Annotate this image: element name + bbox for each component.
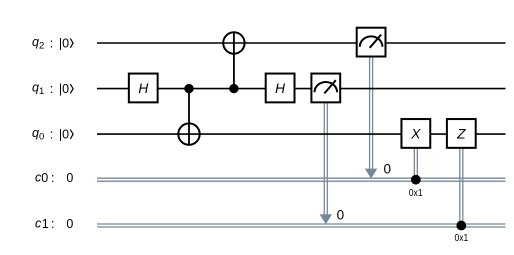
M2 classical double line to c0	[370, 57, 373, 170]
svg-text:|0: |0	[59, 128, 69, 142]
svg-text:Z: Z	[456, 127, 466, 142]
M1 arrow head	[320, 214, 332, 224]
svg-text:0: 0	[39, 132, 44, 143]
label q2	[32, 35, 73, 52]
gate X on q0	[401, 119, 430, 148]
svg-text:0x1: 0x1	[409, 188, 423, 199]
M2 arrow head	[365, 169, 377, 179]
svg-text:q: q	[32, 35, 39, 49]
wire q1	[97, 88, 506, 90]
svg-text:1: 1	[39, 86, 44, 97]
svg-text:0x1: 0x1	[454, 233, 468, 244]
measure M2 on q2	[357, 28, 386, 57]
svg-text:|0: |0	[59, 82, 69, 96]
svg-text:0: 0	[66, 217, 73, 231]
M1 classical double line to c1	[324, 103, 327, 216]
gate H2 on q1	[266, 74, 295, 103]
svg-text::: :	[50, 128, 53, 142]
svg-text::: :	[50, 36, 53, 50]
CNOT q1-q2 control dot	[229, 84, 238, 93]
svg-text:q: q	[32, 126, 39, 140]
X classical control double line to c0	[414, 148, 417, 179]
Z control dot on c1	[456, 221, 466, 231]
svg-text::: :	[51, 217, 54, 231]
label q1	[32, 80, 73, 97]
wire q0	[97, 133, 506, 135]
CNOT q1-q0 vertical wire	[188, 89, 190, 145]
svg-text:X: X	[410, 127, 421, 142]
svg-text:|0: |0	[59, 37, 69, 51]
svg-text:0: 0	[384, 162, 392, 177]
CNOT q1-q2 vertical wire	[233, 32, 235, 88]
Z classical control double line to c1	[460, 148, 463, 225]
svg-text:0: 0	[337, 208, 345, 223]
label c0	[35, 171, 73, 186]
X control dot on c0	[411, 175, 421, 185]
CNOT q1-q2 target	[223, 32, 244, 53]
svg-text:1: 1	[42, 217, 49, 231]
gate Z on q0	[447, 119, 476, 148]
CNOT q1-q0 control dot	[184, 84, 193, 93]
gate H1 on q1	[129, 74, 158, 103]
wire q2	[97, 42, 506, 44]
svg-text:2: 2	[39, 41, 44, 52]
measure M1 on q1	[311, 74, 340, 103]
classical wire c0	[97, 178, 506, 181]
svg-text:0: 0	[41, 171, 48, 185]
label q0	[32, 126, 73, 143]
svg-text:0: 0	[66, 171, 73, 185]
classical wire c1	[97, 224, 506, 227]
label c1	[35, 217, 73, 232]
svg-text:H: H	[275, 81, 285, 96]
svg-text::: :	[50, 82, 53, 96]
CNOT q1-q0 target	[178, 123, 199, 144]
svg-text::: :	[51, 171, 54, 185]
svg-text:H: H	[138, 81, 148, 96]
svg-text:q: q	[32, 80, 39, 94]
